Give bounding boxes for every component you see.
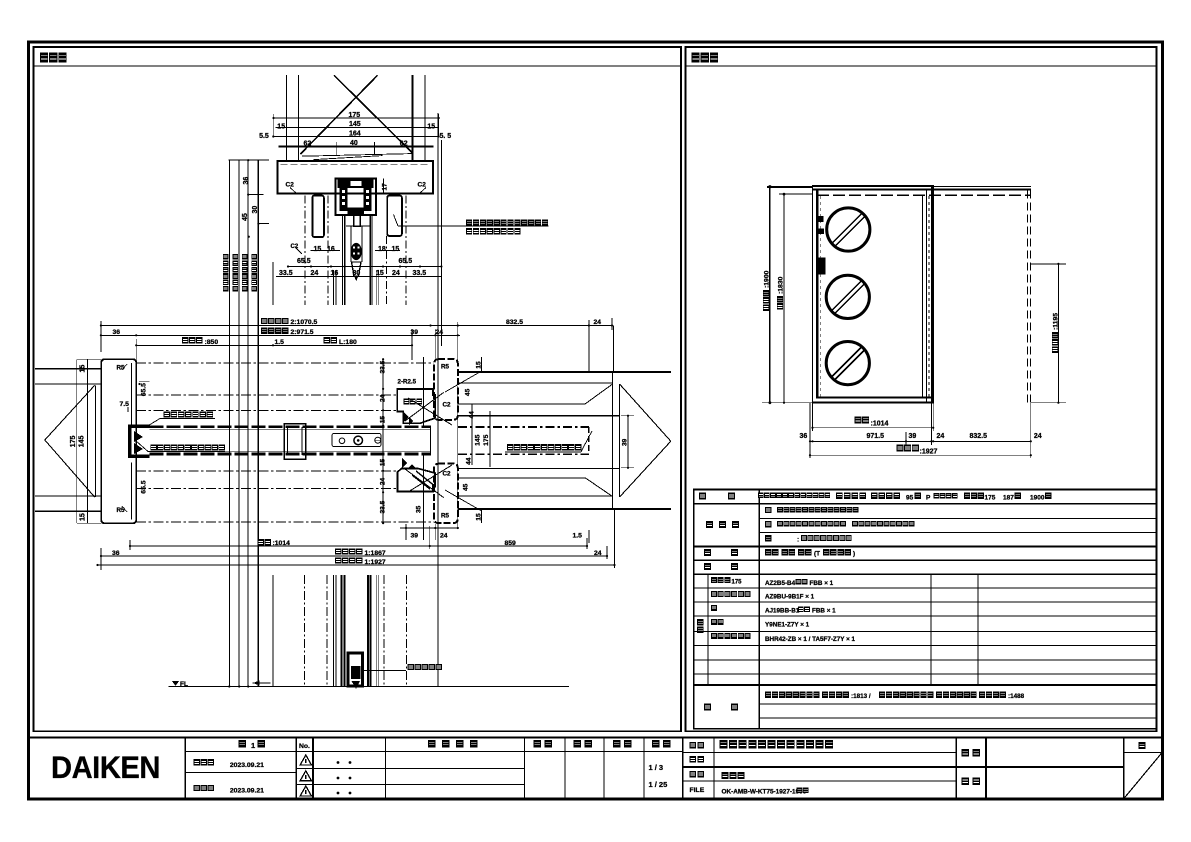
window circle 2 [826,275,869,318]
pocket frame right (top section) [387,196,402,237]
front left edge dashed [820,196,822,397]
svg-text:P: P [926,495,931,502]
svg-text:36: 36 [112,550,120,557]
wall stud lines above head box - right [411,75,413,161]
svg-text:1 / 25: 1 / 25 [649,780,668,789]
svg-text:65.5: 65.5 [399,258,413,265]
lower packing triangles [402,458,417,469]
leader annotation top-right of section [398,225,549,227]
svg-text:Y9NE1-Z7Y × 1: Y9NE1-Z7Y × 1 [765,622,810,629]
svg-text:1:1867: 1:1867 [365,550,386,557]
svg-text:): ) [853,551,855,558]
svg-text:DAIKEN: DAIKEN [51,749,160,785]
shonin header [534,740,553,748]
front dim tobira-daka 1830 [783,194,785,403]
svg-text:39: 39 [909,433,917,440]
svg-text:65.5: 65.5 [141,480,148,493]
plan top dim line A (kutai-haba2 1070.5 / 832.5 / 24) [101,325,612,327]
right break arrow [620,384,671,441]
front bottom dim line 3 (wakugai-haba 1927) [810,454,1031,456]
svg-text:C2: C2 [286,182,295,189]
svg-text:36: 36 [800,433,808,440]
content biko row [765,692,820,698]
sill verticals solid thin [272,575,274,687]
svg-text:39: 39 [622,438,629,446]
svg-text:145: 145 [475,434,482,446]
hinge/catch marks left edge [817,216,824,222]
svg-text:36: 36 [113,329,121,336]
seitei date row [194,759,214,765]
sakusei header [613,740,632,748]
svg-text:1: 1 [251,741,255,750]
svg-text:AZ2B5-B4: AZ2B5-B4 [765,580,796,587]
svg-text:24: 24 [594,319,602,326]
spec table right dividers [930,574,932,685]
hanger adjustment nut (black oval) [351,243,362,260]
annotation screw-cap left [150,444,224,450]
svg-text:FL: FL [180,681,188,688]
zuban label [962,778,981,786]
door panel (plan) top edge [149,426,430,429]
svg-text:44: 44 [466,457,473,465]
content yoshiki row [758,492,830,498]
svg-text:164: 164 [349,130,361,137]
spec table row lines [694,503,1157,505]
lock case front [817,258,826,275]
kaitei date row [194,785,214,791]
svg-text:33.5: 33.5 [380,500,387,513]
svg-text:(T: (T [814,551,820,558]
svg-text:95: 95 [906,495,914,502]
front-view panel frame [686,47,1157,731]
hanger rail unit inner blocks [338,180,374,189]
plan bottom dim line 2 (kutai-haba1 1867) [101,555,607,557]
spec table binban inner divider [707,574,709,685]
plan bottom dim line 3 (wakugai-haba1 1927) [98,564,615,566]
svg-text:15: 15 [380,416,387,424]
sill verticals dash-dot [303,575,305,687]
long extension line right of section [437,113,439,687]
front dim yuko-daka 1195 [1057,264,1059,403]
tick for 36 [247,194,263,196]
svg-text:24: 24 [440,532,448,539]
svg-text:175: 175 [70,436,77,448]
FL marker [172,681,179,686]
svg-text::1488: :1488 [1008,693,1025,700]
svg-text:45: 45 [242,213,249,221]
svg-text:2:971.5: 2:971.5 [291,329,314,336]
front bottom dim line 1 (tobira-haba 1014) [813,427,934,429]
hanger bolt [354,215,361,226]
front top rail double line [813,185,1031,187]
revision dots [337,761,340,764]
section-view panel frame [34,47,682,731]
plan top dim line C (waku-kaikou 850 / 1.5 / yuko 180) [136,344,412,346]
revision warning triangles [300,755,311,765]
svg-text:35: 35 [416,505,423,513]
svg-text:175: 175 [349,112,361,119]
svg-text:24: 24 [436,329,444,336]
label 3-R7 blob [404,399,423,405]
pocket dash-dot centerlines above door [136,362,434,364]
right jamb extension verticals [471,404,473,465]
hanger rail unit outer box [335,178,376,215]
door top channel verticals [342,215,344,305]
svg-text:832.5: 832.5 [506,319,523,326]
front door frame inner thick left [816,190,819,399]
svg-text:1:1927: 1:1927 [365,559,386,566]
svg-text:24: 24 [594,550,602,557]
upper jamb leader diagonals [405,393,444,422]
left break arrow [45,385,95,440]
svg-text:18: 18 [378,246,386,253]
svg-text:33.5: 33.5 [380,360,387,373]
svg-text:24: 24 [380,394,387,402]
svg-text:62: 62 [304,140,312,147]
pocket vertical dim 39 [627,416,629,468]
svg-text:187: 187 [1003,495,1014,502]
dai-1-han header [239,740,247,748]
svg-text:2023.09.21: 2023.09.21 [230,762,264,769]
lower jamb leader diagonals [405,469,444,498]
front-view title band line [686,65,1157,67]
svg-text:36: 36 [243,177,250,185]
wall stud lines above head box - left [285,75,287,161]
front pocket end dashed verticals [1027,191,1029,403]
svg-text:AZ9BU-9B1F × 1: AZ9BU-9B1F × 1 [765,594,815,601]
svg-text:BHR42-ZB × 1 / TA5F7-Z7Y × 1: BHR42-ZB × 1 / TA5F7-Z7Y × 1 [765,636,856,643]
svg-text:1900: 1900 [1030,495,1045,502]
label shiage [706,521,713,528]
revision col row lines [185,772,296,774]
title header bottom line [185,751,682,753]
head jamb box [278,161,434,194]
thin sloped lines under dims [302,154,412,157]
shukushaku header [652,740,671,748]
front dim extension verticals [809,403,811,458]
meeting-stile dim chain vertical [382,359,384,523]
svg-text:15: 15 [277,124,285,131]
svg-text:2-R2.5: 2-R2.5 [398,378,417,385]
X cross brace [334,75,412,152]
svg-text:145: 145 [349,121,361,128]
svg-text:65.5: 65.5 [297,258,311,265]
section-view title band line [34,65,682,67]
hinban label [690,756,705,763]
svg-text:17: 17 [382,183,389,191]
door lock case (plan) [332,434,381,447]
kenmei label [962,749,981,757]
pocket board dashed verticals (top section) [304,196,306,306]
guide pin detail [348,653,363,686]
svg-text::1900: :1900 [763,270,770,288]
svg-text:832.5: 832.5 [970,433,988,440]
45 leader diagonals [445,371,482,392]
page label [1139,742,1146,749]
tick for 30/45 [258,223,270,225]
svg-text:40: 40 [350,140,358,147]
svg-text:175: 175 [483,434,490,446]
section bottom dim line 2 [276,275,441,277]
content shiage row3 [765,535,771,541]
content shiage row1 [765,507,771,513]
svg-text:175: 175 [732,580,743,586]
plan dim extension verticals top [100,321,102,352]
left wall lines (plan) [35,368,101,370]
content totte row [765,549,779,555]
svg-text:C2: C2 [418,182,427,189]
name col row lines [683,766,1124,768]
right wall lines (plan pocket) [458,371,671,373]
svg-text::1927: :1927 [920,448,938,455]
meisho label + content [690,742,705,749]
svg-text:971.5: 971.5 [867,433,885,440]
svg-text:FBB × 1: FBB × 1 [810,580,834,587]
head dim line 145 with 15s [275,126,438,128]
svg-text:R5: R5 [441,364,450,371]
front bottom dim line 2 (36/971.5/39/24/832.5/24) [810,440,1031,442]
svg-text:C2: C2 [443,471,452,478]
dim line under 15/16 [310,250,340,252]
rotated height labels (kutaidaka1900 etc) [223,254,229,292]
label kanagu row [704,563,711,570]
plan bottom extension verticals [100,548,102,570]
head jamb inner dash detail [281,163,431,165]
nut lower trapezoid [352,262,362,276]
guide pin leader + label [364,670,407,672]
upper stepped jamb piece [397,389,435,423]
left dim extension verticals (15/175/145/15) [76,359,78,523]
svg-text:62: 62 [400,140,408,147]
front door bottom double line [817,397,932,399]
section bottom dim line 1 [288,266,441,268]
annotation A-men leader [164,411,214,417]
svg-text::850: :850 [205,339,219,346]
svg-text:R5: R5 [441,513,450,520]
kaitei-rireki header [428,740,478,748]
title block column lines [184,737,186,798]
lower piece hatch [416,471,436,487]
svg-text:1.5: 1.5 [573,532,583,539]
kenzu header [574,740,593,748]
content shiage row2 [765,521,771,527]
svg-text:45: 45 [463,483,470,491]
ext vertical 423.4 [422,357,424,426]
pocket frame left (top section) [313,196,324,238]
svg-text:24: 24 [380,477,387,485]
svg-text:AJ19BB-B1: AJ19BB-B1 [765,608,800,615]
sill verticals door thick [341,575,343,687]
front door right edge + pocket jamb strip [921,195,923,397]
svg-text:FILE: FILE [690,787,705,794]
svg-text:1 / 3: 1 / 3 [649,763,664,772]
svg-text:OK-AMB-W-KT75-1927-1900-: OK-AMB-W-KT75-1927-1900- [722,788,809,795]
pocket dash-dot centerlines below door [136,470,397,472]
front-view title label (shomenzu) [692,53,719,63]
label hinban vertical [697,619,703,633]
svg-text:7.5: 7.5 [120,401,130,408]
label yoshiki [699,493,706,500]
FL line [169,686,569,688]
label totte [704,549,711,556]
upper meeting jamb (rounded) [434,359,458,420]
svg-text:No.: No. [299,743,310,750]
svg-text::1830: :1830 [777,276,784,294]
head dim line 164 with 5.5s [273,136,438,138]
dim 40 boundary ticks [336,142,338,155]
svg-text:39: 39 [411,532,419,539]
plan top dim line B (wakugai-haba2 971.5 / 36 / 39 / 24) [101,334,460,336]
svg-text::1195: :1195 [1052,313,1059,330]
plan bottom dim line 1 (tobira 1014 / 859) [130,545,587,547]
svg-text:45: 45 [465,388,472,396]
spec table label column divider [758,489,760,728]
head dim extension verticals [272,114,274,137]
svg-text:L:180: L:180 [339,339,357,346]
zumei label + sanmenzu [690,771,705,778]
svg-text:2:1070.5: 2:1070.5 [291,319,318,326]
lower stepped jamb piece [398,469,436,492]
svg-text:30: 30 [252,206,259,214]
wall end diagonals near arrow [585,384,612,404]
section verticals continuing to plan dims [272,262,274,305]
vertical dim chain lines left of section [228,160,230,686]
lock screws / cylinder [339,438,345,444]
svg-text:145: 145 [79,436,86,448]
section-view title label (danmenzu) [40,53,67,63]
svg-text:65.5: 65.5 [141,383,148,396]
door panel right end [430,426,432,456]
meeting-stile bottom dim 39/24 [400,527,458,529]
svg-text::1813 /: :1813 / [851,693,871,700]
small sill dim arrow [253,682,271,684]
lower meeting jamb (rounded) [434,464,458,523]
svg-text:15: 15 [380,458,387,466]
svg-text::1014: :1014 [273,540,291,547]
svg-text:2023.09.21: 2023.09.21 [230,788,264,795]
upper packing triangles [404,412,413,425]
annotation screw-cap right [507,444,581,450]
svg-text::: : [797,537,799,544]
window circle 3 [826,342,869,385]
svg-text:C2: C2 [443,402,452,409]
svg-text:FBB × 1: FBB × 1 [812,608,836,615]
title block top line [29,736,1163,738]
svg-text:16: 16 [327,246,335,253]
svg-text:5.5: 5.5 [259,133,269,140]
svg-text:1.5: 1.5 [275,339,285,346]
svg-text:24: 24 [937,433,945,440]
label biko [704,704,711,711]
fixed frame profile (plan left) [101,359,136,523]
svg-text:15: 15 [427,124,435,131]
front dim kutai-daka 1900 [769,187,771,403]
hanger plate verticals in door [350,226,352,262]
svg-text:175: 175 [985,495,996,502]
head dim line 40 with 62s [278,146,433,148]
door panel (plan) bottom edge [149,453,430,456]
svg-text:24: 24 [1034,433,1042,440]
page diagonal [1125,753,1163,798]
svg-text:15: 15 [314,246,322,253]
svg-text:15: 15 [80,365,87,373]
window circle 1 [827,208,870,251]
head dim line 175 [274,117,439,119]
svg-text:15: 15 [392,246,400,253]
front door outer frame [813,186,934,403]
dim chain top tick [229,159,270,161]
packing hatch in channel [134,431,143,454]
svg-text:859: 859 [505,540,517,547]
hinban sub-labels [711,577,730,583]
door phantom dashed (in pocket) [458,426,589,428]
front top rail dashed bottom [817,194,1031,196]
svg-text:15: 15 [80,513,87,521]
spec table outer [694,489,1157,728]
svg-text:5. 5: 5. 5 [440,133,452,140]
door-stop channel (thick U) [130,426,150,456]
door handle (plan) [284,424,306,459]
svg-text::1014: :1014 [871,420,889,427]
